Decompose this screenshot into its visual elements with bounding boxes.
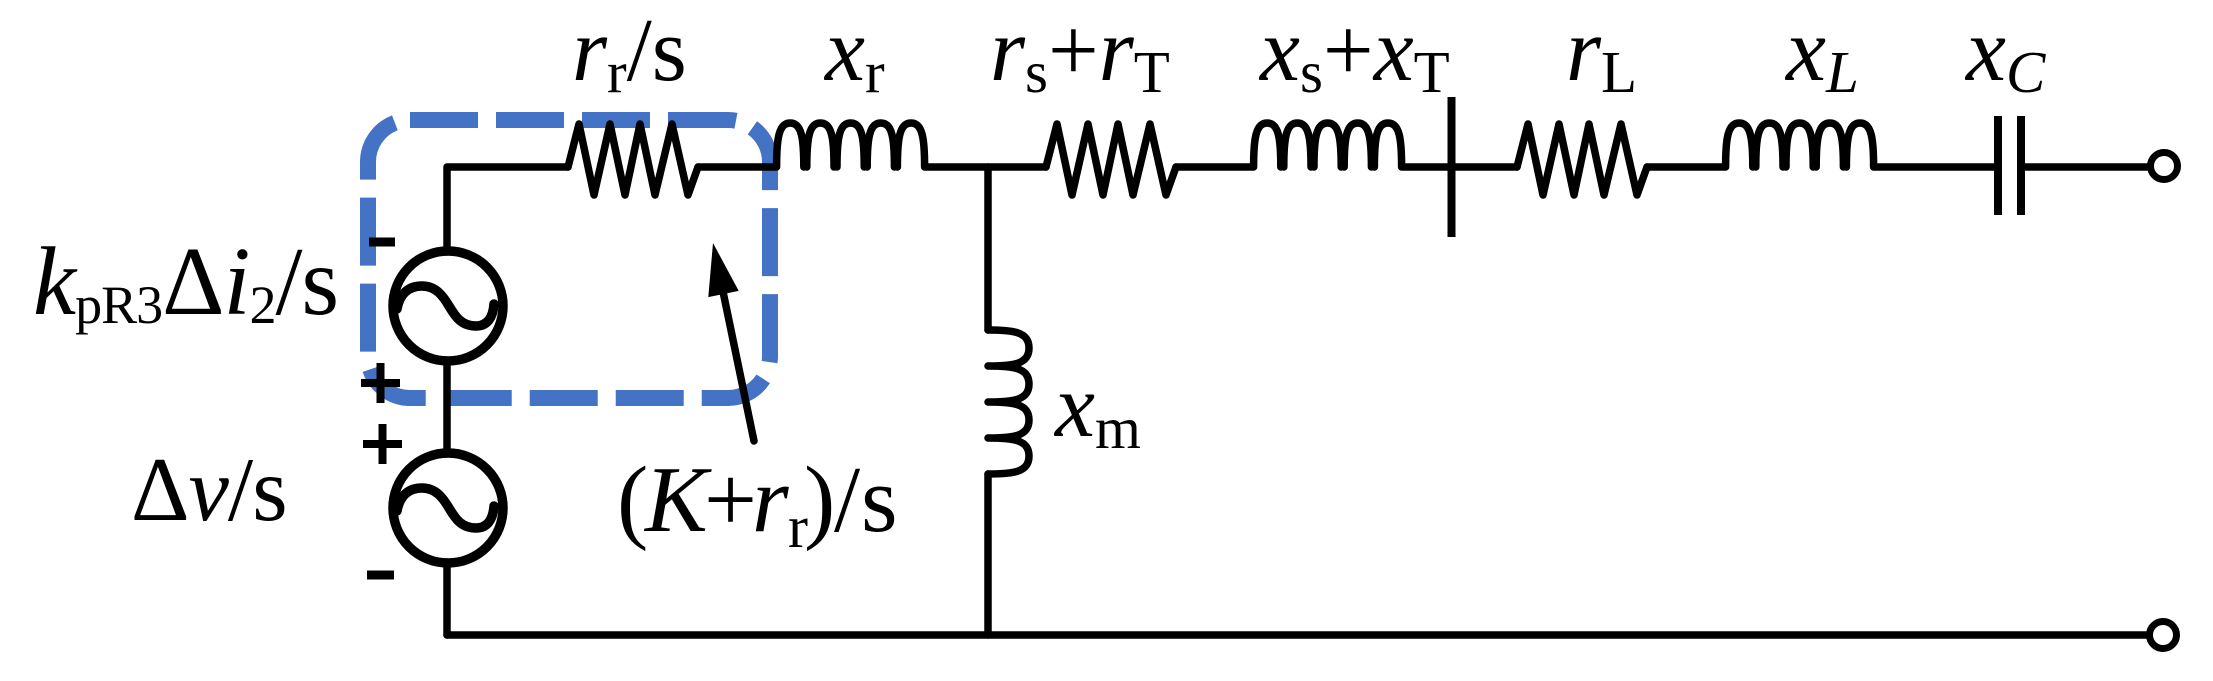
capacitor xC plates [1998, 116, 2021, 215]
wire xs+xT to rL [1403, 163, 1517, 171]
polarity plus above source 2 [363, 424, 402, 464]
inductor xs+xT [1254, 123, 1402, 167]
resistor rs+rT [1046, 124, 1176, 195]
polarity minus above source 1 [369, 238, 395, 247]
arrow pointing at rr/s [724, 294, 755, 441]
top output terminal [2151, 153, 2178, 180]
inductor xL [1726, 123, 1874, 167]
polarity minus below source 2 [367, 571, 394, 580]
inductor xm [988, 330, 1029, 474]
wire rr/s to inductor xr [698, 163, 775, 171]
bottom output terminal [2150, 622, 2177, 649]
polarity plus below source 1 [361, 363, 400, 403]
svg-text:xs+xT: xs+xT [1258, 1, 1450, 105]
bottom rail wire [447, 631, 2146, 639]
AC source kpR3 delta i2/s [393, 251, 503, 361]
wire xC to top terminal [2025, 163, 2147, 171]
svg-text:rr/s: rr/s [572, 1, 687, 105]
resistor rL [1517, 124, 1647, 195]
svg-text:xm: xm [1053, 357, 1141, 461]
svg-text:xr: xr [823, 1, 885, 105]
bus tick bar [1448, 97, 1456, 237]
svg-text:xC: xC [1964, 1, 2046, 105]
svg-text:rL: rL [1566, 1, 1637, 105]
inductor xr [777, 123, 925, 167]
arrow head [708, 243, 738, 297]
resistor rr/s [568, 124, 698, 195]
AC source delta v/s [393, 453, 503, 563]
blue dashed highlight box [368, 120, 770, 398]
wire source 2 to bottom rail [443, 562, 451, 635]
svg-text:(K+rr)/s: (K+rr)/s [617, 448, 898, 560]
svg-text:kpR3Δi2/s: kpR3Δi2/s [33, 228, 338, 335]
wire from source kpR3 top to resistor rr/s [447, 167, 568, 252]
svg-text:xL: xL [1784, 1, 1859, 105]
wire between the two sources [443, 360, 451, 454]
xm branch wire upper [984, 167, 992, 330]
sine symbol of source 2 [397, 488, 494, 528]
wire rs+rT to inductor xs+xT [1176, 163, 1252, 171]
wire rL to inductor xL [1647, 163, 1724, 171]
wire xL to capacitor xC [1875, 163, 1994, 171]
sine symbol of source 1 [397, 286, 494, 326]
xm branch wire lower [984, 474, 992, 635]
wire xr to rs+rT across node of xm branch [926, 163, 1046, 171]
svg-text:rs+rT: rs+rT [990, 1, 1170, 105]
svg-text:Δv/s: Δv/s [131, 439, 287, 540]
